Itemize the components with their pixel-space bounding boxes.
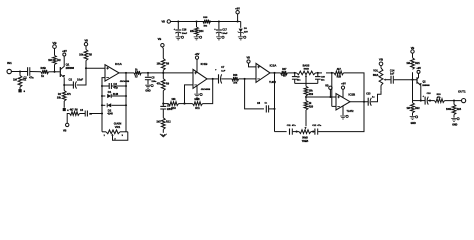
svg-text:50kB: 50kB	[304, 68, 310, 70]
potentiometer VR3 TREBLE	[299, 130, 311, 134]
power +9V	[417, 70, 420, 73]
svg-text:4k7: 4k7	[337, 68, 342, 71]
svg-text:BASS: BASS	[303, 65, 310, 68]
svg-text:+9V: +9V	[195, 52, 200, 56]
resistor R9	[162, 73, 164, 79]
capacitor C11	[289, 129, 291, 135]
capacitor C6	[160, 105, 166, 107]
wire	[80, 113, 86, 115]
svg-text:VR1: VR1	[115, 125, 121, 129]
resistor R8	[162, 70, 164, 73]
wire -in IC1A	[102, 78, 105, 132]
svg-text:10uF: 10uF	[222, 33, 228, 35]
svg-text:2N5088: 2N5088	[66, 67, 75, 70]
wire to IC1A +in	[86, 67, 105, 69]
resistor R10	[163, 103, 168, 105]
svg-text:47k: 47k	[157, 83, 162, 86]
resistor R14	[196, 22, 198, 28]
svg-text:1uF: 1uF	[390, 74, 395, 76]
node -in IC2A	[244, 78, 246, 80]
svg-text:R17: R17	[282, 69, 287, 71]
potentiometer VR2 BASS	[297, 71, 316, 75]
svg-text:C13: C13	[366, 94, 371, 96]
svg-text:+9V: +9V	[416, 66, 421, 70]
power +9V	[63, 53, 66, 56]
svg-text:R2: R2	[57, 58, 61, 62]
capacitor C9	[294, 73, 296, 76]
capacitor C5	[147, 73, 149, 77]
zener D3	[240, 22, 242, 28]
svg-text:C17: C17	[222, 29, 227, 32]
svg-text:C1: C1	[23, 75, 27, 79]
svg-text:10uF: 10uF	[77, 78, 83, 82]
ground	[160, 134, 167, 137]
potentiometer VR4 VOL	[379, 68, 383, 86]
svg-text:VB: VB	[63, 129, 67, 132]
svg-text:VB: VB	[246, 57, 250, 60]
svg-text:R13: R13	[233, 75, 238, 77]
wire +in IC2B	[306, 96, 336, 98]
svg-text:IC2B: IC2B	[348, 92, 356, 96]
op-amp IC1A	[105, 65, 119, 81]
svg-text:47p: 47p	[113, 86, 118, 90]
diode D1	[102, 95, 105, 97]
wire	[287, 72, 296, 74]
wire merge	[295, 82, 318, 84]
power VB	[84, 43, 87, 46]
svg-text:1M: 1M	[406, 62, 409, 65]
svg-text:10k: 10k	[157, 62, 162, 65]
svg-text:10k: 10k	[171, 98, 176, 101]
wire	[311, 131, 315, 133]
svg-text:R12: R12	[166, 121, 171, 124]
op-amp IC1B	[193, 69, 207, 88]
resistor R22	[412, 101, 414, 103]
wire +in IC2A	[249, 63, 257, 67]
resistor R1	[19, 72, 21, 76]
wire bottom row	[275, 131, 287, 133]
capacitor C3	[102, 85, 109, 87]
ground GND	[145, 85, 151, 88]
svg-text:GND: GND	[411, 123, 416, 125]
wire base column	[412, 80, 414, 101]
svg-text:47n: 47n	[292, 124, 296, 127]
svg-text:C2: C2	[69, 77, 73, 81]
svg-text:GND: GND	[452, 124, 457, 126]
capacitor C16	[177, 22, 179, 30]
node +in row IC2B	[305, 96, 307, 98]
capacitor C4	[101, 112, 103, 114]
svg-text:1M: 1M	[13, 78, 18, 82]
svg-text:C16: C16	[182, 29, 187, 32]
ground GND pin	[196, 86, 198, 94]
wire output IC2A	[270, 72, 281, 74]
capacitor C13	[367, 98, 369, 106]
ground	[410, 117, 416, 120]
wire output IC1B	[207, 78, 219, 80]
svg-text:R11: R11	[195, 107, 200, 110]
transistor Q1	[59, 67, 61, 77]
wire	[77, 68, 86, 85]
wire	[371, 90, 381, 101]
capacitor C15	[413, 100, 426, 102]
svg-text:TL072: TL072	[347, 110, 355, 113]
resistor R4	[63, 85, 65, 91]
wire	[316, 72, 323, 74]
power VB	[53, 45, 57, 49]
wire	[67, 114, 69, 124]
wiper arrow VR3	[304, 127, 306, 129]
wire	[11, 71, 20, 73]
wire output column	[274, 73, 276, 132]
svg-text:C14: C14	[390, 69, 395, 72]
resistor R24	[453, 101, 455, 105]
svg-text:R3B: R3B	[41, 66, 46, 70]
wire	[49, 71, 60, 73]
svg-text:D1: D1	[108, 90, 112, 94]
wire feedback column	[125, 73, 127, 132]
svg-text:VOL: VOL	[373, 69, 379, 72]
capacitor C8	[265, 105, 267, 112]
svg-text:+9V: +9V	[341, 81, 346, 85]
resistor R6	[70, 112, 80, 116]
op-amp IC2B	[336, 94, 350, 110]
svg-text:10k: 10k	[309, 89, 314, 92]
power VB rail node	[167, 20, 170, 23]
svg-text:1uF: 1uF	[221, 70, 226, 72]
power VB	[411, 50, 414, 53]
svg-text:10k: 10k	[57, 96, 62, 99]
power VB	[247, 60, 250, 63]
svg-text:R19: R19	[309, 93, 314, 96]
resistor R5	[85, 61, 87, 69]
svg-text:JRC4558: JRC4558	[120, 80, 130, 83]
svg-text:R24: R24	[457, 108, 462, 111]
wire -in IC2B	[332, 105, 336, 107]
potentiometer VR1 GAIN	[102, 131, 106, 133]
ground pin IC2B	[342, 106, 344, 116]
wire	[30, 71, 41, 73]
resistor R21	[412, 72, 414, 79]
svg-text:R21: R21	[415, 62, 420, 65]
svg-text:50kA: 50kA	[373, 74, 379, 77]
ground	[63, 108, 66, 111]
resistor R17	[281, 71, 288, 75]
svg-text:47n: 47n	[317, 124, 321, 127]
wire output IC1A	[119, 72, 134, 74]
power VB	[379, 62, 383, 66]
wire to IC1B	[163, 72, 193, 74]
svg-text:IC1A: IC1A	[115, 62, 123, 66]
svg-text:VB: VB	[325, 84, 329, 87]
node emitter Q1	[63, 84, 65, 86]
resistor R23	[428, 100, 435, 102]
resistor R20	[305, 97, 307, 101]
node emitter Q2	[429, 100, 431, 102]
ground	[451, 118, 457, 121]
resistor R16	[326, 72, 334, 74]
capacitor C1	[20, 71, 28, 73]
svg-text:IC2A: IC2A	[270, 64, 278, 68]
svg-text:1k5: 1k5	[156, 121, 161, 124]
svg-text:4148: 4148	[113, 93, 119, 96]
node feedback IC1B	[162, 103, 164, 105]
svg-text:12V: 12V	[244, 31, 248, 33]
ground	[194, 37, 200, 40]
node -in IC1B	[183, 103, 185, 105]
svg-text:100k: 100k	[446, 108, 452, 111]
transistor Q2	[416, 77, 418, 83]
wire	[237, 14, 239, 22]
capacitor C12	[314, 129, 316, 135]
resistor R11	[193, 102, 203, 106]
power VB	[329, 86, 332, 89]
resistor R19	[305, 83, 307, 86]
resistor R7	[134, 71, 141, 75]
svg-text:VB: VB	[158, 37, 162, 41]
svg-text:IN1: IN1	[7, 61, 12, 65]
svg-text:2N5088: 2N5088	[422, 85, 430, 87]
svg-text:R20: R20	[309, 106, 314, 109]
resistor R3	[41, 70, 49, 74]
wire -in IC1B	[185, 85, 194, 104]
node R8/R9	[162, 72, 164, 74]
svg-text:VB: VB	[411, 46, 415, 50]
resistor R15	[203, 20, 210, 24]
resistor R13	[232, 77, 239, 81]
svg-text:1k: 1k	[41, 74, 44, 78]
capacitor C10	[317, 73, 319, 76]
wire output IC2B	[350, 101, 368, 103]
resistor R2	[54, 65, 56, 72]
svg-text:R10: R10	[171, 107, 176, 110]
ground	[238, 37, 244, 40]
svg-text:47n: 47n	[29, 75, 34, 79]
ground	[18, 89, 21, 92]
svg-text:VB: VB	[162, 21, 166, 24]
svg-text:OUT1: OUT1	[458, 90, 466, 94]
wire rail	[171, 21, 241, 23]
op-amp IC2A	[256, 63, 270, 82]
svg-text:TREB: TREB	[302, 140, 309, 143]
svg-text:C3: C3	[113, 82, 117, 86]
svg-text:+9V: +9V	[62, 49, 67, 53]
capacitor C17	[218, 22, 220, 30]
diode D2	[102, 104, 105, 106]
svg-text:R22: R22	[415, 107, 420, 110]
svg-text:R16: R16	[337, 76, 342, 79]
svg-text:R14: R14	[199, 30, 204, 33]
feedback column IC2B	[331, 73, 333, 107]
svg-text:GND: GND	[145, 89, 151, 92]
power +9V pin IC2B	[341, 86, 344, 89]
svg-text:TL072: TL072	[269, 82, 276, 84]
svg-text:VB: VB	[84, 39, 88, 42]
ground	[176, 37, 182, 40]
svg-text:1M: 1M	[406, 107, 409, 110]
svg-text:GND: GND	[194, 98, 200, 101]
svg-text:IC1B: IC1B	[201, 62, 209, 66]
capacitor C2	[64, 84, 73, 86]
svg-text:10k: 10k	[79, 54, 84, 57]
resistor R12	[161, 118, 165, 130]
ground	[216, 37, 222, 40]
svg-text:+9V: +9V	[235, 7, 240, 11]
svg-text:JRC4558: JRC4558	[201, 88, 211, 91]
power +9V	[236, 11, 239, 14]
node VB	[66, 123, 69, 126]
wire	[221, 78, 232, 80]
wire feedback IC2A	[245, 79, 264, 109]
power VB	[161, 44, 164, 47]
svg-text:10uF: 10uF	[182, 33, 188, 35]
svg-text:4148: 4148	[107, 112, 113, 115]
power +9V pin	[195, 56, 198, 59]
capacitor C14	[390, 76, 392, 84]
svg-text:Q1: Q1	[66, 63, 70, 67]
wire	[394, 79, 417, 81]
